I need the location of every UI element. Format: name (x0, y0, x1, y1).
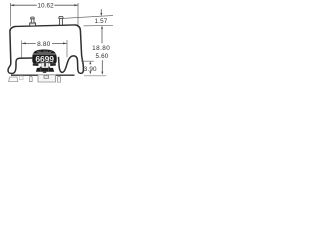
dimension 8.80 line (22, 42, 67, 44)
fitting B (combination stud) body (60, 18, 63, 25)
dimension 8.80 arrowheads (22, 42, 26, 44)
bottom bolt right (57, 76, 60, 82)
dimension 3.90 top extension line (81, 60, 94, 62)
svg-text:18.80: 18.80 (92, 45, 110, 52)
fitting A (air port) flange (30, 23, 36, 26)
bottom left foot bracket (9, 77, 18, 82)
dimension 1.57 down arrow (100, 9, 102, 13)
dimension 8.80 right tick (66, 40, 68, 57)
product photo: lower bar slits (41, 68, 49, 72)
product photo: bottom slits (37, 60, 53, 63)
bottom center bracket hole (44, 75, 49, 78)
product photo: left nub (33, 63, 39, 66)
dimension 3.90 down arrow (89, 71, 91, 74)
dimension 10.62 extension line right (77, 3, 79, 27)
bottom plate bottom line / right extension (84, 75, 106, 77)
fitting B cap (59, 16, 63, 18)
dimension 10.62 arrowheads (11, 4, 15, 6)
bottom bolt left of bracket (29, 76, 32, 81)
dimension 18.80/5.60 lower stem and down arrow (101, 60, 103, 72)
dimension 10.62 line (11, 4, 79, 6)
svg-text:8.80: 8.80 (37, 41, 51, 48)
dimension 1.57 top extension line (63, 16, 113, 19)
product photo: right nub (50, 63, 56, 66)
product photo: lower bar (36, 68, 54, 72)
product photo: center dark connector (40, 67, 50, 69)
dimension 18.80/5.60 up arrow and stem (101, 26, 103, 29)
bottom plate top line (11, 74, 75, 76)
product photo: faint logo texture (37, 51, 53, 52)
svg-text:10.62: 10.62 (37, 2, 54, 9)
top plate (16, 25, 75, 27)
product photo: bracket stud (44, 63, 46, 66)
bellows outline right (59, 25, 84, 74)
dimension 10.62 extension line left (10, 3, 12, 27)
bellows outline left (8, 26, 32, 73)
dimension 3.90 up arrow (89, 61, 91, 64)
svg-text:1.57: 1.57 (95, 18, 108, 25)
svg-text:6699: 6699 (35, 54, 54, 64)
bottom center bracket (38, 75, 56, 82)
product photo: bottom stud nub (43, 72, 47, 73)
dimension 8.80 left tick (21, 41, 23, 59)
product photo: bellows body (32, 50, 56, 64)
dimension 1.57 bottom extension line (84, 24, 114, 27)
fitting A cap (31, 17, 35, 19)
svg-text:5.60: 5.60 (96, 53, 109, 60)
fitting A body (31, 19, 34, 23)
product photo: center bracket (42, 63, 49, 68)
product photo: light girdle band (33, 53, 56, 55)
bottom left small stud (19, 76, 23, 80)
